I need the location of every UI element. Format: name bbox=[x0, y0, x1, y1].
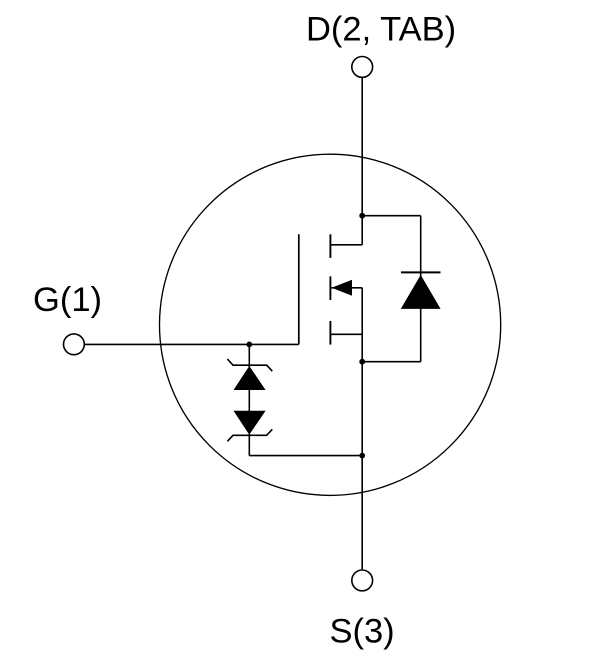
node source / zener-return junction dot bbox=[359, 453, 365, 459]
node source / body-diode junction dot bbox=[359, 359, 365, 365]
zener diode Z2 triangle (pointing down) bbox=[234, 411, 266, 435]
wire between zener Z1 and Z2 bbox=[248, 389, 250, 412]
transistor Q1 channel bar middle (body segment) bbox=[329, 276, 331, 300]
wire MOSFET drain tap horizontal bbox=[330, 244, 362, 246]
zener diode Z2 cathode bar (hooked) bbox=[227, 429, 272, 441]
wire body-diode bottom branch horizontal bbox=[362, 361, 421, 363]
svg-text:G(1): G(1) bbox=[33, 281, 102, 319]
zener diode Z1 triangle (pointing up) bbox=[234, 366, 266, 390]
wire drain vertical from terminal D to MOSFET drain tap bbox=[361, 77, 363, 244]
diode D-body triangle (anode up from source) bbox=[401, 275, 441, 309]
wire zener branch lead down to source return bbox=[248, 434, 250, 456]
wire MOSFET source tap horizontal bbox=[330, 333, 362, 335]
terminal S(3) open circle bbox=[352, 570, 373, 591]
wire source vertical down to terminal S bbox=[361, 288, 363, 569]
node drain junction dot bbox=[359, 213, 365, 219]
wire body-diode top branch horizontal bbox=[362, 215, 421, 217]
wire body-diode anode lead vertical bbox=[420, 308, 422, 362]
transistor Q1 gate electrode bar bbox=[298, 234, 300, 344]
terminal G(1) open circle bbox=[64, 334, 85, 355]
component outline circle (package envelope) bbox=[160, 154, 501, 495]
svg-text:D(2, TAB): D(2, TAB) bbox=[306, 11, 456, 49]
transistor Q1 channel bar top (drain segment) bbox=[329, 234, 331, 258]
node gate / zener junction dot bbox=[246, 342, 252, 348]
svg-text:S(3): S(3) bbox=[330, 613, 395, 651]
transistor Q1 channel bar bottom (source segment) bbox=[329, 321, 331, 345]
diode D-body cathode bar bbox=[401, 271, 441, 273]
zener diode Z1 cathode bar (hooked) bbox=[227, 359, 272, 371]
wire gate horizontal from terminal G bbox=[84, 343, 298, 345]
transistor Q1 substrate arrow (points left into channel) bbox=[332, 287, 363, 289]
wire zener return horizontal to source bbox=[249, 455, 362, 457]
terminal D(2) open circle bbox=[352, 57, 373, 78]
wire body-diode cathode lead vertical bbox=[420, 216, 422, 277]
wire zener branch lead down from gate bbox=[248, 344, 250, 367]
